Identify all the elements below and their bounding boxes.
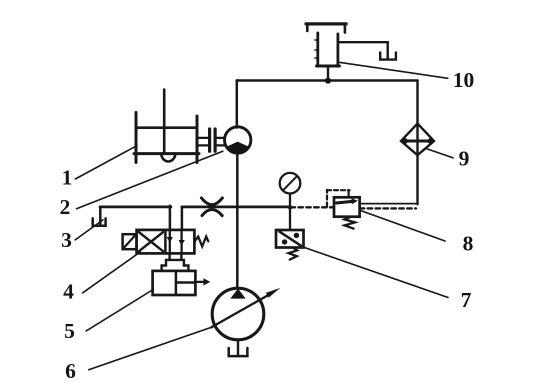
- wire: main mid line from tank 3: [100, 206, 171, 209]
- leader line 7: [305, 248, 449, 298]
- tank at cylinder 10 drain: [380, 52, 396, 59]
- electric motor 1: [134, 90, 199, 163]
- leader line 8: [361, 211, 446, 242]
- wire: dashed pilot line gauge to valve 8: [291, 206, 335, 208]
- leader line 2: [77, 151, 223, 209]
- svg-text:5: 5: [64, 319, 75, 343]
- filter 9: [401, 124, 434, 156]
- leader line 9: [426, 149, 453, 158]
- relief valve 8: [327, 190, 360, 229]
- svg-text:7: 7: [461, 288, 472, 312]
- svg-text:4: 4: [63, 280, 74, 304]
- wire: thin return line to valve 8: [360, 203, 418, 205]
- pump 2: [225, 127, 251, 154]
- leader line 1: [75, 146, 137, 179]
- variable pump 6: [211, 288, 280, 356]
- node: junction at cylinder 10: [325, 78, 331, 84]
- svg-text:8: 8: [463, 232, 474, 256]
- svg-text:3: 3: [61, 228, 72, 252]
- wire: cylinder 10 drop: [327, 67, 329, 81]
- wire: valve 4 right riser: [181, 207, 184, 230]
- svg-text:6: 6: [65, 359, 76, 383]
- pressure gauge: [280, 173, 301, 230]
- wire: valve 4 to control cylinder 5: [170, 253, 182, 260]
- control cylinder 5 cap: [162, 260, 189, 271]
- leader line 10: [339, 62, 448, 78]
- wire: pump column down to pump 6: [236, 153, 239, 289]
- leader line 3: [75, 220, 103, 240]
- shaft coupling between motor 1 and pump 2: [199, 129, 225, 151]
- cylinder 10: [306, 24, 346, 66]
- wire: tank 3 drop: [99, 207, 102, 225]
- svg-text:9: 9: [459, 147, 470, 171]
- control cylinder 5: [153, 271, 211, 295]
- leader line 6: [89, 327, 212, 369]
- svg-text:10: 10: [453, 68, 475, 92]
- wire: top main line: [237, 79, 418, 82]
- solenoid valve 4: [123, 230, 209, 254]
- wire: right column above filter: [416, 81, 418, 205]
- leader line 4: [83, 252, 141, 293]
- pressure switch 7: [276, 230, 304, 260]
- wire: valve 4 left riser: [169, 206, 172, 230]
- wire: main mid line to gauge: [182, 206, 291, 209]
- tank 3: [93, 218, 106, 225]
- wire: dashed drain line right of valve 8: [360, 207, 416, 209]
- leader line 5: [86, 290, 152, 331]
- wire: pump 2 riser: [236, 81, 239, 128]
- throttle: [201, 198, 222, 216]
- wire: cylinder 10 side drain line: [339, 42, 388, 59]
- svg-text:1: 1: [62, 166, 73, 190]
- svg-text:2: 2: [60, 195, 71, 219]
- tank at pump 6: [229, 348, 248, 356]
